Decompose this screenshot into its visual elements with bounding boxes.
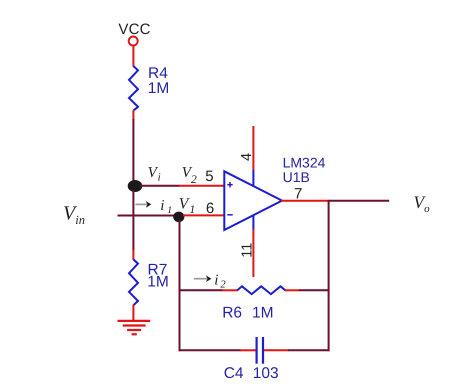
wire node Vi down xyxy=(132,190,134,251)
svg-text:11: 11 xyxy=(239,243,255,258)
wire R4 to node Vi (red stub) xyxy=(132,110,134,119)
op-amp minus input mark xyxy=(227,214,232,216)
wire node V1 to R6 xyxy=(180,289,224,291)
pin 5 stub xyxy=(179,185,224,187)
svg-text:LM324: LM324 xyxy=(283,155,326,171)
wire node Vi to pin 5 xyxy=(140,185,180,187)
svg-text:1M: 1M xyxy=(148,80,170,97)
svg-text:6: 6 xyxy=(206,200,214,217)
C4 left stub xyxy=(240,349,256,351)
svg-text:i2: i2 xyxy=(214,272,226,290)
wire VCC to R4 xyxy=(132,46,134,67)
op-amp U1B xyxy=(224,171,282,230)
resistor R6 xyxy=(237,286,285,294)
wire node V1 down (left side of feedback loop) xyxy=(179,220,181,351)
C4 right stub xyxy=(264,349,289,351)
svg-text:Vi: Vi xyxy=(148,165,161,183)
bottom wire right xyxy=(288,349,330,351)
svg-text:i1: i1 xyxy=(160,198,172,216)
wire Vin to node V1 xyxy=(118,215,180,217)
pin 6 stub xyxy=(183,214,224,216)
svg-text:103: 103 xyxy=(253,365,279,382)
node Vi xyxy=(128,180,143,192)
VCC terminal xyxy=(129,37,138,46)
svg-text:R6: R6 xyxy=(222,305,242,322)
ground xyxy=(118,321,151,334)
svg-text:1M: 1M xyxy=(252,305,274,322)
svg-text:V2: V2 xyxy=(182,165,197,186)
capacitor C4 xyxy=(257,337,263,364)
pin 4 stub (blue) xyxy=(252,170,254,186)
R6 left stub xyxy=(223,289,238,291)
wire to R7 (red stub) xyxy=(132,250,134,260)
output wire xyxy=(328,200,389,202)
svg-text:U1B: U1B xyxy=(283,169,310,185)
pin 4 wire xyxy=(252,126,254,171)
pin 11 wire xyxy=(252,229,254,277)
wire R4 to node Vi xyxy=(132,119,134,183)
svg-text:1M: 1M xyxy=(147,273,169,290)
pin 7 stub xyxy=(281,200,329,202)
current arrow i2 xyxy=(194,275,212,282)
svg-text:Vo: Vo xyxy=(413,192,430,215)
node V1 xyxy=(173,212,184,223)
current arrow i1 xyxy=(136,201,152,208)
svg-text:5: 5 xyxy=(205,168,213,185)
pin 11 stub (blue) xyxy=(252,216,254,230)
svg-text:C4: C4 xyxy=(224,365,244,382)
wire R7 to ground xyxy=(132,305,134,320)
svg-text:Vin: Vin xyxy=(63,203,85,227)
op-amp plus input mark xyxy=(227,182,232,187)
resistor R7 xyxy=(129,259,138,305)
resistor R4 xyxy=(129,66,138,111)
R6 right stub xyxy=(285,289,300,291)
wire R6 to output branch xyxy=(299,289,329,291)
svg-text:4: 4 xyxy=(239,153,255,161)
svg-text:VCC: VCC xyxy=(118,21,150,38)
wire output down (right side of feedback loop) xyxy=(328,200,330,351)
bottom wire left (to C4) xyxy=(179,349,241,351)
